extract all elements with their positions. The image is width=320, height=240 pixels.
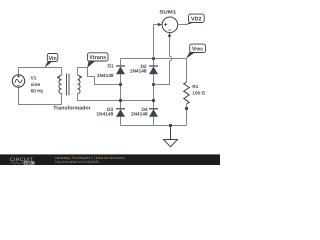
wire secondary top to node A bbox=[78, 68, 121, 85]
voltage source V1 bbox=[12, 75, 24, 87]
transformer T1 secondary phase dot bbox=[80, 76, 82, 78]
wire R1 bottom bbox=[186, 104, 188, 126]
wire Vrec corner to R1 bbox=[186, 59, 188, 83]
wire bridge left leg bbox=[120, 59, 122, 126]
diode D3 bbox=[116, 109, 125, 117]
svg-text:D1: D1 bbox=[107, 64, 113, 70]
svg-text:1N4148: 1N4148 bbox=[131, 112, 148, 118]
junction cross dot bbox=[119, 99, 122, 102]
diode D2 bbox=[149, 66, 158, 74]
watermark bar bbox=[0, 154, 220, 165]
svg-text:1N4148: 1N4148 bbox=[97, 73, 114, 79]
svg-text:LAB: LAB bbox=[25, 161, 32, 165]
label D4 1N4148 bbox=[131, 107, 148, 118]
wire top rail left loop bbox=[19, 68, 62, 76]
junction rail dot at D2 bbox=[152, 57, 155, 60]
label D3 1N4148 bbox=[96, 107, 113, 118]
diode D4 bbox=[149, 109, 158, 117]
svg-text:R1: R1 bbox=[192, 84, 198, 89]
tag Vtrans bbox=[87, 53, 108, 68]
svg-text:100 Ω: 100 Ω bbox=[192, 91, 205, 96]
junction R1 terminal dot bbox=[185, 107, 188, 110]
label SUM1 bbox=[159, 10, 176, 16]
svg-text:sine: sine bbox=[31, 82, 41, 88]
wire secondary bottom to node B bbox=[78, 94, 154, 101]
wire bridge top rail bbox=[121, 58, 187, 60]
transformer T1 core bbox=[67, 74, 70, 96]
wire SUM1 output bbox=[177, 24, 187, 26]
label R1 100 ohm bbox=[192, 84, 205, 95]
summing block SUM1 bbox=[162, 17, 178, 33]
junction ground dot bbox=[169, 124, 172, 127]
transformer T1 primary phase dot bbox=[57, 76, 59, 78]
svg-text:Vtrans: Vtrans bbox=[89, 55, 106, 61]
tag Vrec bbox=[186, 44, 205, 59]
label D2 1N4148 bbox=[130, 64, 147, 74]
wire bridge right leg bbox=[153, 59, 155, 126]
svg-text:1N4148: 1N4148 bbox=[130, 68, 147, 74]
svg-text:VD2: VD2 bbox=[191, 17, 202, 23]
junction node B lower dot bbox=[152, 99, 155, 102]
svg-text:Vin: Vin bbox=[48, 56, 56, 62]
svg-text:Transformador: Transformador bbox=[53, 105, 90, 111]
tag Vin bbox=[45, 54, 58, 68]
svg-text:V1: V1 bbox=[31, 75, 37, 81]
svg-text:1N4148: 1N4148 bbox=[96, 112, 113, 118]
svg-text:SUM1: SUM1 bbox=[159, 10, 176, 16]
ground bbox=[164, 126, 178, 147]
transformer T1 secondary coil bbox=[78, 75, 81, 93]
resistor R1 bbox=[184, 82, 190, 104]
transformer T1 primary coil bbox=[59, 75, 62, 93]
diode D1 bbox=[116, 66, 125, 74]
label V1 sine 60 Hz bbox=[31, 75, 44, 94]
wire node B to SUM1 bottom input with hop bbox=[154, 34, 172, 85]
wire bottom rail left loop bbox=[19, 87, 62, 104]
wire bridge bottom rail bbox=[121, 125, 187, 127]
svg-text:60 Hz: 60 Hz bbox=[31, 88, 44, 94]
watermark CircuitLab logo bbox=[10, 157, 35, 165]
label D1 1N4148 bbox=[97, 64, 114, 79]
watermark text bbox=[55, 156, 125, 164]
tag VD2 bbox=[186, 14, 204, 25]
junction node B upper dot bbox=[152, 83, 155, 86]
arrow into SUM1 bottom bbox=[168, 33, 172, 37]
label Transformador bbox=[53, 105, 90, 111]
junction node A dot bbox=[119, 83, 122, 86]
arrow into SUM1 left bbox=[158, 23, 162, 27]
svg-text:http://circuitlab.com/c/6y6h95: http://circuitlab.com/c/6y6h95 bbox=[55, 160, 99, 164]
wire rail to SUM1 left input bbox=[154, 25, 159, 59]
svg-text:Vrec: Vrec bbox=[192, 47, 203, 53]
